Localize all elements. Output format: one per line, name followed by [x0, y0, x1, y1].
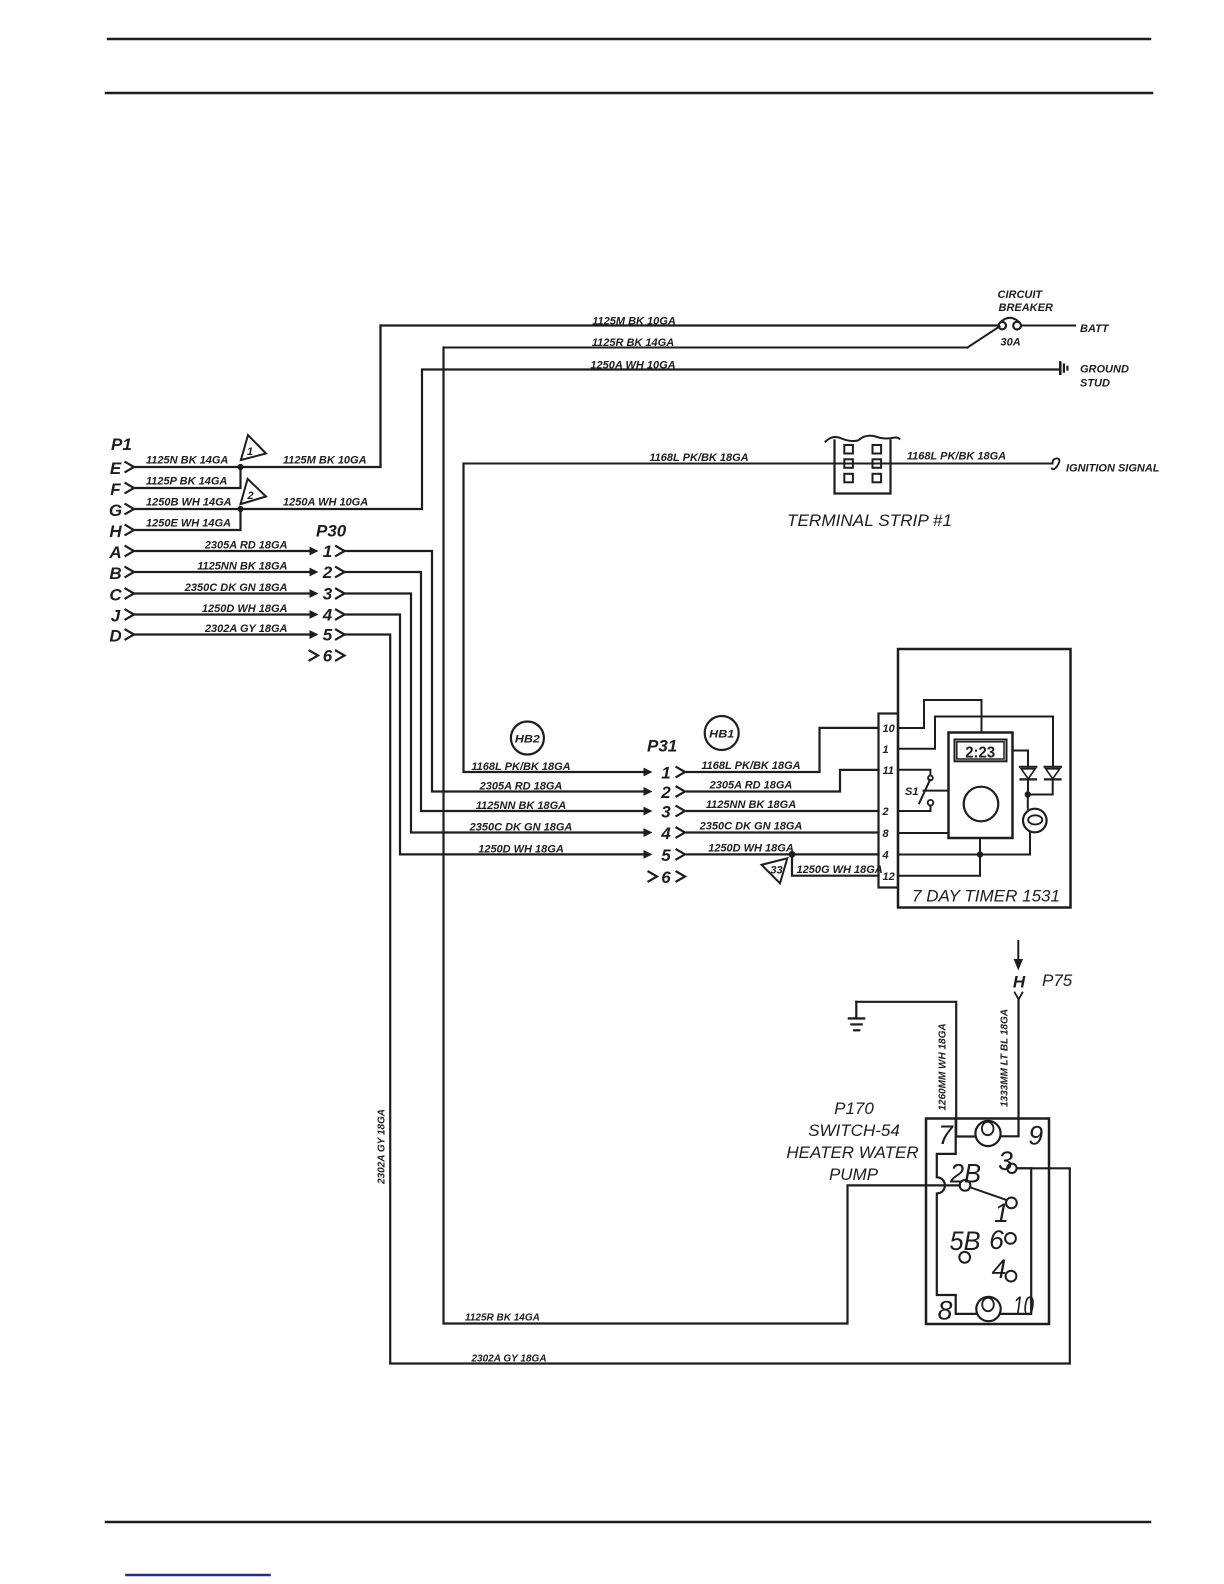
wire 1250D WH 18GA (P1 J to P30 4)	[134, 613, 311, 615]
wire breaker to BATT	[1021, 325, 1075, 327]
svg-text:1125NN BK 18GA: 1125NN BK 18GA	[706, 799, 796, 811]
wire timer pin 1 to diode D2	[898, 717, 1053, 767]
clock module	[949, 733, 1013, 839]
svg-text:HEATER WATER: HEATER WATER	[786, 1143, 918, 1162]
svg-text:IGNITION SIGNAL: IGNITION SIGNAL	[1066, 463, 1160, 475]
svg-text:1250A WH 10GA: 1250A WH 10GA	[590, 360, 675, 372]
lamp (switch bottom)	[976, 1297, 1000, 1321]
splice triangle 2	[241, 479, 267, 504]
svg-text:STUD: STUD	[1080, 378, 1110, 390]
wire 1168L PK/BK 18GA (P31 1 to timer pin 10)	[687, 728, 879, 772]
svg-text:5: 5	[323, 626, 333, 645]
svg-text:SWITCH-54: SWITCH-54	[808, 1121, 900, 1140]
wire 2350C DK GN 18GA (P1 C to P30 3)	[134, 592, 311, 594]
wire 1250D WH 18GA (P31 5 to timer pin 4)	[687, 853, 879, 855]
svg-text:2350C DK GN 18GA: 2350C DK GN 18GA	[184, 582, 288, 594]
svg-text:1: 1	[247, 446, 253, 458]
svg-text:4: 4	[322, 606, 333, 625]
svg-text:B: B	[109, 564, 121, 583]
terminal strip #1 body	[835, 441, 891, 494]
svg-text:BREAKER: BREAKER	[999, 302, 1053, 314]
svg-text:2350C DK GN 18GA: 2350C DK GN 18GA	[699, 821, 803, 833]
P75 pin H chevron	[1015, 993, 1023, 1000]
timer pin strip	[879, 714, 899, 888]
svg-text:1125N BK 14GA: 1125N BK 14GA	[146, 455, 228, 467]
svg-text:2: 2	[322, 563, 333, 582]
switch P170 outer box	[926, 1119, 1049, 1325]
wire timer pin 10 to clock module top	[898, 700, 982, 733]
svg-text:4: 4	[992, 1254, 1007, 1284]
svg-text:3: 3	[323, 585, 333, 604]
svg-text:4: 4	[882, 850, 889, 862]
svg-text:HB2: HB2	[515, 734, 540, 746]
ground stud symbol	[1059, 363, 1062, 374]
svg-text:1125M BK 10GA: 1125M BK 10GA	[592, 316, 676, 328]
svg-text:1260MM WH 18GA: 1260MM WH 18GA	[937, 1023, 948, 1110]
svg-text:2302A GY 18GA: 2302A GY 18GA	[377, 1109, 388, 1185]
svg-text:2305A RD 18GA: 2305A RD 18GA	[204, 540, 288, 552]
wire 2305A RD 18GA (P30 1 to P31)	[345, 551, 645, 792]
svg-text:1168L PK/BK 18GA: 1168L PK/BK 18GA	[649, 452, 748, 464]
wire 1125R BK 14GA (long vertical, bottom run to switch 2B)	[444, 348, 960, 1324]
svg-text:2: 2	[882, 806, 889, 818]
svg-text:2302A GY 18GA: 2302A GY 18GA	[204, 623, 288, 635]
wire timer pin 4 to lamp branch	[898, 832, 1030, 855]
svg-text:2302A GY 18GA: 2302A GY 18GA	[471, 1354, 547, 1365]
svg-text:F: F	[110, 480, 121, 499]
svg-text:1250B WH 14GA: 1250B WH 14GA	[146, 497, 232, 509]
svg-text:1125R BK 14GA: 1125R BK 14GA	[465, 1313, 540, 1324]
svg-text:PUMP: PUMP	[829, 1165, 879, 1184]
wire 1125NN BK 18GA (P30 2 to P31)	[345, 572, 645, 811]
arrow into P75 H	[1017, 941, 1019, 960]
svg-text:2:23: 2:23	[965, 744, 995, 761]
svg-text:1168L PK/BK 18GA: 1168L PK/BK 18GA	[701, 760, 800, 772]
svg-text:H: H	[109, 522, 122, 541]
svg-text:3: 3	[998, 1146, 1013, 1176]
clock display	[955, 740, 1007, 762]
svg-text:4: 4	[660, 824, 671, 843]
wire diode junction to D2	[1028, 779, 1053, 794]
P31 pin 6 (unused)	[649, 872, 658, 882]
footer blue mark	[127, 1574, 270, 1577]
svg-text:2350C DK GN 18GA: 2350C DK GN 18GA	[469, 822, 573, 834]
svg-text:P170: P170	[834, 1099, 874, 1118]
svg-text:G: G	[109, 501, 122, 520]
junction dot P1 E/F splice	[237, 464, 243, 470]
wire 1250D WH 18GA (P30 4 to P31)	[345, 615, 645, 855]
svg-text:7 DAY TIMER 1531: 7 DAY TIMER 1531	[912, 887, 1060, 906]
svg-text:P75: P75	[1042, 971, 1073, 990]
svg-text:2305A RD 18GA: 2305A RD 18GA	[709, 780, 793, 792]
svg-text:1: 1	[883, 744, 889, 756]
svg-text:30A: 30A	[1001, 337, 1021, 349]
circuit breaker 30A	[999, 322, 1006, 329]
wire junction to lamp	[1027, 795, 1029, 810]
wire pin7 to lamp	[956, 1136, 976, 1138]
wire 1333MM LT BL 18GA (P75 H to switch pin 9)	[1001, 1001, 1019, 1136]
wire switch pin 3 stub	[1017, 1167, 1032, 1169]
splice triangle 1	[241, 435, 266, 460]
switch S1	[928, 776, 933, 781]
ignition signal hook	[1052, 458, 1060, 469]
wire 1125R BK 14GA diagonal into breaker	[968, 327, 1000, 348]
svg-text:10: 10	[1013, 1291, 1034, 1321]
wire clock module bottom to junction	[979, 838, 981, 855]
diode D2	[1045, 766, 1061, 768]
header rule second	[106, 92, 1152, 95]
svg-text:TERMINAL STRIP #1: TERMINAL STRIP #1	[787, 511, 952, 530]
svg-text:GROUND: GROUND	[1080, 364, 1129, 376]
svg-text:1250D WH 18GA: 1250D WH 18GA	[708, 842, 794, 854]
svg-text:9: 9	[1028, 1121, 1043, 1151]
svg-text:12: 12	[883, 871, 895, 883]
7 day timer 1531 box	[898, 649, 1071, 908]
wire 1250E WH 14GA	[134, 509, 241, 530]
svg-text:1250A WH 10GA: 1250A WH 10GA	[283, 497, 368, 509]
svg-text:8: 8	[883, 828, 890, 840]
splice triangle 33	[762, 858, 788, 883]
svg-text:A: A	[108, 543, 121, 562]
svg-text:5: 5	[661, 846, 671, 865]
svg-text:1250D WH 18GA: 1250D WH 18GA	[202, 603, 288, 615]
node HB1	[705, 716, 739, 750]
wire 1168L PK/BK 18GA (through terminal strip to ignition signal)	[464, 463, 1053, 465]
wire 1260MM WH 18GA (ground to switch pin 7)	[856, 1002, 975, 1137]
svg-text:1168L PK/BK 18GA: 1168L PK/BK 18GA	[471, 761, 570, 773]
wire 2350C DK GN 18GA (P31 4 to timer pin 8)	[687, 831, 879, 833]
wire 1125P BK 14GA	[134, 467, 241, 488]
diode D1	[1020, 766, 1036, 768]
svg-text:E: E	[110, 459, 122, 478]
wire timer pin 12 to junction	[898, 855, 980, 876]
svg-text:CIRCUIT: CIRCUIT	[998, 289, 1044, 301]
svg-text:1: 1	[323, 542, 332, 561]
svg-text:P31: P31	[647, 737, 677, 756]
svg-text:1250G WH 18GA: 1250G WH 18GA	[797, 864, 883, 876]
wire 2302A GY 18GA (P1 D to P30 5)	[134, 633, 311, 635]
svg-text:S1: S1	[905, 786, 918, 798]
P30 pin 6 (unused)	[310, 651, 319, 661]
junction dot P1 G/H splice	[237, 506, 243, 512]
junction dot pin4/pin12 branch	[977, 851, 983, 857]
wire 1125R BK 14GA top run	[444, 347, 968, 349]
svg-text:6: 6	[661, 868, 671, 887]
footer rule	[106, 1521, 1150, 1524]
svg-text:HB1: HB1	[709, 729, 734, 741]
wire timer pin 2 to S1 lower contact	[898, 806, 931, 811]
wire clock module to diode D1	[1013, 751, 1029, 767]
junction dot diodes	[1025, 791, 1031, 797]
svg-text:2B: 2B	[949, 1159, 981, 1189]
switch body outline	[937, 1119, 1031, 1314]
svg-text:3: 3	[661, 803, 671, 822]
svg-text:C: C	[109, 586, 122, 605]
wire 2305A RD 18GA (P31 2 to timer pin 11)	[687, 770, 879, 792]
wire 1125NN BK 18GA (P1 B to P30 2)	[134, 571, 311, 573]
ground symbol	[855, 1002, 857, 1017]
svg-text:6: 6	[989, 1225, 1004, 1255]
svg-text:P30: P30	[316, 522, 347, 541]
svg-text:33: 33	[770, 865, 782, 877]
wire 1168L PK/BK 18GA (down to P31 1)	[464, 464, 645, 773]
wire 1125N BK 14GA	[134, 466, 241, 468]
svg-text:6: 6	[323, 647, 333, 666]
svg-text:1250E WH 14GA: 1250E WH 14GA	[146, 518, 231, 530]
wire timer pin 11 to switch S1 contact	[898, 770, 930, 776]
wire 1125NN BK 18GA (P31 3 to timer pin 2)	[687, 810, 879, 812]
svg-text:BATT: BATT	[1080, 323, 1110, 335]
svg-text:D: D	[109, 627, 121, 646]
svg-text:7: 7	[938, 1120, 954, 1150]
svg-text:1250D WH 18GA: 1250D WH 18GA	[478, 843, 564, 855]
junction dot 1250D/1250G	[789, 851, 796, 858]
lamp (timer)	[1023, 809, 1047, 833]
header rule top	[108, 38, 1150, 41]
svg-text:11: 11	[883, 765, 894, 777]
wire 1125M BK 10GA (P1-E junction up and across to circuit breaker)	[241, 326, 998, 468]
svg-text:1: 1	[661, 764, 670, 783]
svg-text:1125NN BK 18GA: 1125NN BK 18GA	[197, 561, 287, 573]
wire 1250G WH 18GA (to timer pin 12)	[792, 854, 879, 875]
svg-text:J: J	[111, 607, 121, 626]
switch blade 2B to 1	[970, 1187, 1006, 1200]
svg-text:10: 10	[883, 723, 896, 735]
node HB2	[511, 722, 544, 755]
svg-text:1125P BK 14GA: 1125P BK 14GA	[146, 476, 227, 488]
svg-text:1125M BK 10GA: 1125M BK 10GA	[283, 455, 367, 467]
svg-text:P1: P1	[111, 435, 132, 454]
wire 1250B WH 14GA	[134, 508, 241, 510]
wire timer pin 8 to clock module	[898, 832, 949, 834]
wire 2302A GY 18GA (P30 5 to switch pin 3)	[345, 635, 1070, 1364]
svg-text:1333MM LT BL 18GA: 1333MM LT BL 18GA	[999, 1009, 1010, 1107]
wire 1250A WH 10GA (P1-G junction up and across to ground stud)	[241, 370, 1060, 510]
svg-text:2: 2	[246, 490, 253, 502]
svg-text:1: 1	[994, 1198, 1009, 1228]
clock dial	[964, 787, 999, 822]
wire diode D1 to junction	[1027, 779, 1029, 794]
svg-text:1125R BK 14GA: 1125R BK 14GA	[592, 337, 674, 349]
wire 2305A RD 18GA (P1 A to P30 1)	[134, 550, 311, 552]
svg-text:1125NN BK 18GA: 1125NN BK 18GA	[476, 800, 566, 812]
svg-text:1168L PK/BK 18GA: 1168L PK/BK 18GA	[907, 451, 1006, 463]
svg-text:H: H	[1013, 973, 1026, 992]
svg-text:2: 2	[660, 783, 671, 802]
switch terminal 1	[1006, 1198, 1017, 1209]
svg-text:2305A RD 18GA: 2305A RD 18GA	[479, 781, 563, 793]
wire 2350C DK GN 18GA (P30 3 to P31)	[345, 594, 645, 833]
svg-text:8: 8	[938, 1295, 953, 1325]
lamp (switch top)	[975, 1121, 1000, 1146]
